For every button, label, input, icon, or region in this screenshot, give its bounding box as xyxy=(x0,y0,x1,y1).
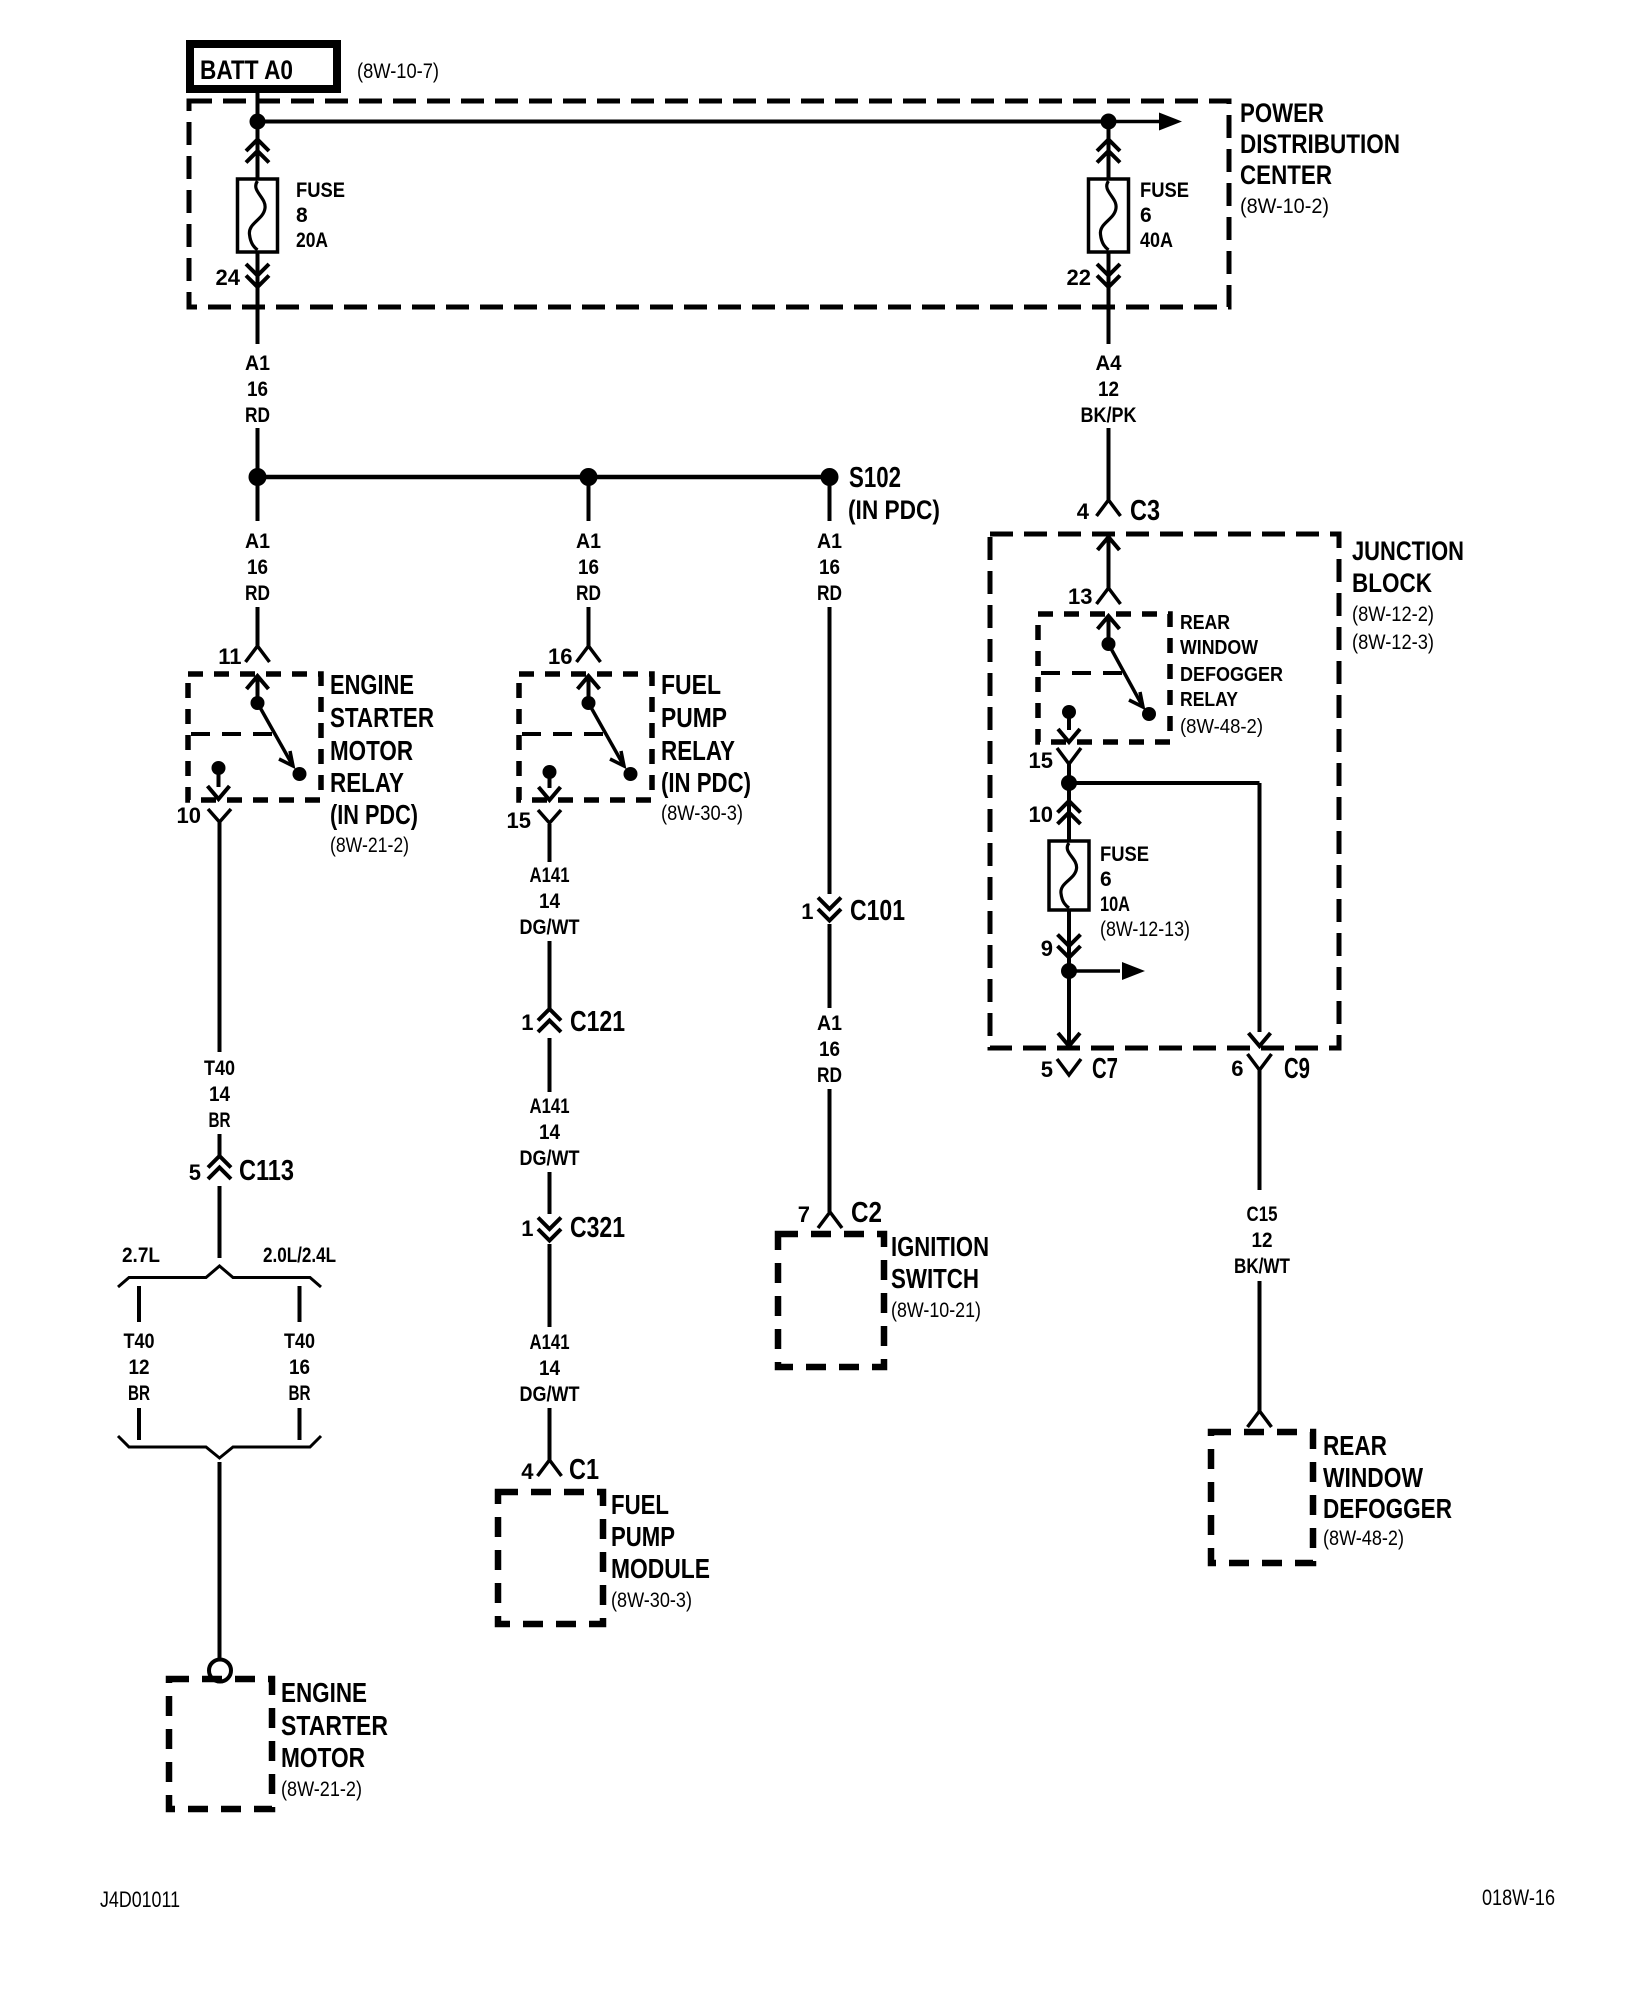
wire C121 to A141 xyxy=(548,1038,552,1092)
wire C9 to C15 xyxy=(1258,1070,1262,1190)
connector C113 xyxy=(208,1156,231,1179)
svg-text:(8W-21-2): (8W-21-2) xyxy=(281,1778,362,1801)
svg-text:16: 16 xyxy=(819,1038,840,1061)
defogger relay coil divider xyxy=(1041,671,1126,675)
wire label A1 16 RD (feed) xyxy=(245,352,270,427)
wire label A1 16 RD (branch 2) xyxy=(576,530,601,605)
pin 1 label (C321) xyxy=(521,1216,533,1241)
node S102 splice left xyxy=(249,468,267,486)
pin 15 label xyxy=(507,808,531,833)
reference (8W-10-7) xyxy=(357,60,439,83)
svg-text:(8W-12-3): (8W-12-3) xyxy=(1352,631,1434,654)
svg-text:A1: A1 xyxy=(245,352,270,375)
pin 15 label (JB) xyxy=(1029,748,1053,773)
wire splice to branch 1 xyxy=(256,484,260,521)
battery feed label box BATT A0 xyxy=(190,44,337,89)
wire label A1 16 RD (ignition) xyxy=(817,1012,842,1087)
svg-text:6: 6 xyxy=(1100,868,1112,891)
svg-text:(8W-10-2): (8W-10-2) xyxy=(1240,195,1329,218)
wire fuse to tap splice xyxy=(1067,910,1071,964)
svg-text:(8W-30-3): (8W-30-3) xyxy=(611,1589,692,1612)
fuel pump relay entry arrow xyxy=(578,676,600,703)
svg-text:14: 14 xyxy=(539,1357,560,1380)
wire label T40 14 BR xyxy=(204,1057,235,1132)
svg-text:C15: C15 xyxy=(1247,1203,1278,1226)
wire splice to C9 branch xyxy=(1069,783,1260,1032)
fuse 6 value label xyxy=(1140,179,1189,252)
connector label C1 xyxy=(569,1454,599,1486)
svg-text:(IN PDC): (IN PDC) xyxy=(330,799,418,830)
footer drawing number J4D01011 xyxy=(100,1887,180,1912)
svg-text:12: 12 xyxy=(129,1356,150,1379)
svg-text:8: 8 xyxy=(296,204,308,227)
connector pin 15 (JB) xyxy=(1057,748,1081,764)
svg-text:12: 12 xyxy=(1098,378,1119,401)
wire 2.0L branch lower xyxy=(298,1408,302,1440)
svg-text:SWITCH: SWITCH xyxy=(891,1263,979,1294)
svg-text:(8W-30-3): (8W-30-3) xyxy=(661,802,743,825)
svg-text:1: 1 xyxy=(521,1216,533,1241)
connector C7 xyxy=(1057,1059,1081,1075)
svg-text:C7: C7 xyxy=(1092,1053,1118,1085)
wire 2.0L branch upper xyxy=(298,1286,302,1322)
svg-text:C113: C113 xyxy=(239,1155,294,1187)
connector C9 xyxy=(1248,1054,1272,1070)
svg-text:14: 14 xyxy=(539,1121,560,1144)
svg-text:IGNITION: IGNITION xyxy=(891,1231,989,1262)
connector pin 13 xyxy=(1097,588,1121,604)
svg-text:FUSE: FUSE xyxy=(296,179,345,202)
wire splice to branch 3 xyxy=(828,484,832,521)
svg-text:16: 16 xyxy=(289,1356,310,1379)
rear window defogger box xyxy=(1211,1432,1313,1563)
svg-text:(8W-48-2): (8W-48-2) xyxy=(1323,1527,1404,1550)
node battery bus right xyxy=(1101,114,1117,130)
connector pin 10 (JB) xyxy=(1058,801,1081,824)
wire into splice S102 xyxy=(256,428,260,470)
wire relay to A141 xyxy=(548,824,552,862)
svg-text:24: 24 xyxy=(216,265,241,290)
svg-text:FUSE: FUSE xyxy=(1100,843,1149,866)
engine starter motor relay label xyxy=(330,669,434,857)
connector label C3 xyxy=(1130,495,1160,527)
connector C3 xyxy=(1097,500,1121,516)
wire label A1 16 RD (branch 3) xyxy=(817,530,842,605)
wire bus to fuse 6 xyxy=(1107,122,1111,180)
svg-text:STARTER: STARTER xyxy=(281,1710,388,1741)
svg-text:16: 16 xyxy=(819,556,840,579)
svg-text:PUMP: PUMP xyxy=(611,1521,675,1552)
svg-text:BK/PK: BK/PK xyxy=(1081,404,1137,427)
node S102 splice right xyxy=(821,468,839,486)
relay output contact xyxy=(208,761,230,799)
svg-text:A4: A4 xyxy=(1096,352,1122,375)
rear window defogger relay label xyxy=(1180,612,1284,738)
pin 10 label (JB) xyxy=(1029,802,1053,827)
ignition switch box xyxy=(778,1234,884,1367)
footer sheet number 018W-16 xyxy=(1482,1885,1555,1910)
pin 11 label xyxy=(218,644,241,669)
connector label C113 xyxy=(239,1155,294,1187)
wire splice bus S102 xyxy=(258,475,830,480)
fuse 6 10A label xyxy=(1100,843,1190,941)
junction block title xyxy=(1352,536,1464,654)
svg-text:ENGINE: ENGINE xyxy=(281,1677,367,1708)
connector C121 xyxy=(538,1009,561,1032)
wire pin 15 to splice xyxy=(1067,764,1071,783)
wire label T40 16 BR xyxy=(284,1330,315,1405)
starter motor terminal ring xyxy=(209,1660,231,1682)
wire A1 to ignition switch xyxy=(828,1089,832,1212)
svg-text:BR: BR xyxy=(128,1382,150,1405)
pin 4 label (C3) xyxy=(1077,499,1090,524)
power distribution center title xyxy=(1240,98,1400,218)
pin 9 label xyxy=(1041,936,1053,961)
svg-text:C101: C101 xyxy=(850,895,905,927)
relay coil divider xyxy=(191,732,277,736)
fuel pump relay switch common xyxy=(582,696,638,781)
svg-text:14: 14 xyxy=(539,890,560,913)
wire C101 to A1 xyxy=(828,924,832,1008)
engine starter motor box xyxy=(169,1679,272,1809)
junction block dashed box xyxy=(990,534,1339,1048)
svg-text:(8W-48-2): (8W-48-2) xyxy=(1180,716,1263,738)
fuel pump relay coil divider xyxy=(522,732,608,736)
wire battery bus across PDC xyxy=(258,120,1109,124)
svg-text:A1: A1 xyxy=(817,530,842,553)
svg-text:PUMP: PUMP xyxy=(661,702,727,733)
svg-text:POWER: POWER xyxy=(1240,98,1324,128)
node defogger feed splice xyxy=(1061,775,1077,791)
power distribution center dashed box xyxy=(189,101,1229,307)
node battery bus left xyxy=(250,114,266,130)
connector pin 15 xyxy=(538,810,561,823)
svg-text:BR: BR xyxy=(209,1109,231,1132)
svg-text:11: 11 xyxy=(218,644,241,669)
svg-text:DISTRIBUTION: DISTRIBUTION xyxy=(1240,129,1400,159)
pin 4 label (C1) xyxy=(521,1459,534,1484)
svg-text:10: 10 xyxy=(1029,802,1053,827)
fuel pump module label xyxy=(611,1489,710,1612)
svg-text:T40: T40 xyxy=(284,1330,315,1353)
engine option label 2.7L xyxy=(122,1244,160,1267)
svg-text:CENTER: CENTER xyxy=(1240,160,1332,190)
svg-text:16: 16 xyxy=(247,378,268,401)
pin 1 label (C101) xyxy=(801,899,813,924)
svg-text:C1: C1 xyxy=(569,1454,599,1486)
svg-text:MOTOR: MOTOR xyxy=(330,735,413,766)
wire label A141 14 DG/WT (2) xyxy=(520,1095,580,1170)
C9 exit arrow xyxy=(1249,1033,1271,1046)
svg-text:BATT A0: BATT A0 xyxy=(200,55,293,85)
engine starter motor relay box xyxy=(188,674,321,800)
svg-text:S102: S102 xyxy=(849,462,901,494)
wire T40 to C113 xyxy=(218,1134,222,1156)
svg-text:RELAY: RELAY xyxy=(661,735,735,766)
node S102 splice middle xyxy=(580,468,598,486)
pin 16 label xyxy=(548,644,572,669)
engine option label 2.0L/2.4L xyxy=(263,1244,336,1267)
wire label A141 14 DG/WT (1) xyxy=(520,864,580,939)
svg-text:DG/WT: DG/WT xyxy=(520,916,580,939)
wire label T40 12 BR xyxy=(124,1330,155,1405)
fuel pump relay output contact xyxy=(539,765,561,800)
svg-text:1: 1 xyxy=(521,1010,533,1035)
pin 7 label (C2) xyxy=(798,1202,810,1227)
svg-text:REAR: REAR xyxy=(1180,612,1230,634)
wire C15 to defogger xyxy=(1258,1281,1262,1411)
ignition switch label xyxy=(891,1231,989,1322)
connector rear window defogger xyxy=(1248,1411,1272,1427)
pin 22 label xyxy=(1067,265,1091,290)
wire tap arrow out xyxy=(1069,962,1145,980)
svg-text:9: 9 xyxy=(1041,936,1053,961)
fuse 6 10A junction block xyxy=(1049,841,1089,910)
svg-text:6: 6 xyxy=(1140,204,1152,227)
wire splice to branch 2 xyxy=(587,484,591,521)
junction block entry arrow xyxy=(1098,537,1120,588)
svg-text:DG/WT: DG/WT xyxy=(520,1383,580,1406)
rear window defogger label xyxy=(1323,1430,1452,1550)
svg-text:DEFOGGER: DEFOGGER xyxy=(1180,664,1284,686)
wire BATT A0 to fuse 8 xyxy=(256,89,260,179)
svg-text:018W-16: 018W-16 xyxy=(1482,1885,1555,1910)
wire merge to starter motor xyxy=(218,1462,222,1660)
connector C2 xyxy=(818,1212,842,1228)
svg-text:5: 5 xyxy=(1041,1057,1053,1082)
svg-text:BR: BR xyxy=(289,1382,311,1405)
connector label C121 xyxy=(570,1006,625,1038)
wire A141 to fuel pump module xyxy=(548,1408,552,1460)
svg-text:ENGINE: ENGINE xyxy=(330,669,414,700)
svg-text:RD: RD xyxy=(817,582,842,605)
svg-text:10: 10 xyxy=(177,803,201,828)
wire branch 1 to relay xyxy=(256,607,260,646)
connector label C9 xyxy=(1284,1053,1310,1085)
svg-text:2.7L: 2.7L xyxy=(122,1244,160,1267)
svg-text:DG/WT: DG/WT xyxy=(520,1147,580,1170)
connector pin 10 xyxy=(208,809,231,822)
rear window defogger relay box xyxy=(1038,614,1170,742)
svg-text:J4D01011: J4D01011 xyxy=(100,1887,180,1912)
svg-text:C121: C121 xyxy=(570,1006,625,1038)
svg-text:13: 13 xyxy=(1068,584,1092,609)
connector pin 9 xyxy=(1058,935,1081,958)
svg-text:16: 16 xyxy=(247,556,268,579)
svg-text:FUEL: FUEL xyxy=(611,1489,669,1520)
connector label C2 xyxy=(851,1197,882,1229)
svg-text:A1: A1 xyxy=(817,1012,842,1035)
connector pair below fuse 8 xyxy=(246,264,269,287)
connector C1 xyxy=(538,1460,562,1476)
svg-text:14: 14 xyxy=(209,1083,230,1106)
svg-text:1: 1 xyxy=(801,899,813,924)
svg-text:16: 16 xyxy=(578,556,599,579)
fuse 6 40A xyxy=(1089,179,1129,252)
connector label C321 xyxy=(570,1212,625,1244)
svg-text:RD: RD xyxy=(245,404,270,427)
brace engine merge bottom xyxy=(118,1436,321,1458)
svg-text:FUEL: FUEL xyxy=(661,669,721,700)
connector pair above fuse 6 xyxy=(1097,140,1120,163)
svg-text:(8W-10-7): (8W-10-7) xyxy=(357,60,439,83)
pin 24 label xyxy=(216,265,241,290)
connector pin 16 xyxy=(577,646,601,662)
wire fuse 6 to PDC exit xyxy=(1107,252,1111,344)
pin 6 label (C9) xyxy=(1231,1056,1243,1081)
wire label A1 16 RD (branch 1) xyxy=(245,530,270,605)
connector label C7 xyxy=(1092,1053,1118,1085)
wire branch 2 to relay xyxy=(587,607,591,646)
connector pair below fuse 6 xyxy=(1097,264,1120,287)
defogger relay switch common xyxy=(1102,637,1157,721)
wire A141 to C121 xyxy=(548,941,552,1008)
fuse 8 20A xyxy=(238,179,278,252)
defogger relay output contact xyxy=(1058,705,1080,742)
svg-text:RD: RD xyxy=(576,582,601,605)
svg-text:BLOCK: BLOCK xyxy=(1352,568,1432,598)
svg-text:A1: A1 xyxy=(576,530,601,553)
svg-text:15: 15 xyxy=(507,808,531,833)
svg-text:DEFOGGER: DEFOGGER xyxy=(1323,1493,1452,1524)
svg-text:10A: 10A xyxy=(1100,893,1130,916)
svg-text:MODULE: MODULE xyxy=(611,1553,710,1584)
svg-text:15: 15 xyxy=(1029,748,1053,773)
defogger relay entry arrow xyxy=(1098,616,1120,644)
svg-text:JUNCTION: JUNCTION xyxy=(1352,536,1464,566)
svg-text:7: 7 xyxy=(798,1202,810,1227)
pin 5 label (C7) xyxy=(1041,1057,1053,1082)
brace engine split top xyxy=(118,1266,321,1287)
svg-text:16: 16 xyxy=(548,644,572,669)
connector pair above fuse 8 xyxy=(246,140,269,163)
splice label S102 xyxy=(848,462,940,525)
svg-text:2.0L/2.4L: 2.0L/2.4L xyxy=(263,1244,336,1267)
wire label A4 12 BK/PK xyxy=(1081,352,1137,427)
svg-text:A141: A141 xyxy=(530,1095,570,1118)
relay switch common xyxy=(251,696,307,781)
svg-text:5: 5 xyxy=(189,1160,201,1185)
svg-text:REAR: REAR xyxy=(1323,1430,1387,1461)
svg-text:C3: C3 xyxy=(1130,495,1160,527)
svg-text:A141: A141 xyxy=(530,864,570,887)
svg-text:RELAY: RELAY xyxy=(330,767,404,798)
svg-text:T40: T40 xyxy=(204,1057,235,1080)
svg-text:A141: A141 xyxy=(530,1331,570,1354)
svg-text:WINDOW: WINDOW xyxy=(1180,637,1258,659)
svg-text:(8W-10-21): (8W-10-21) xyxy=(891,1299,981,1322)
wire PDC to C3 xyxy=(1107,428,1111,500)
fuel pump relay label xyxy=(661,669,751,825)
wire fuse 8 to PDC exit xyxy=(256,252,260,344)
fuse 8 value label xyxy=(296,179,345,252)
svg-text:6: 6 xyxy=(1231,1056,1243,1081)
connector C321 xyxy=(538,1218,561,1241)
svg-text:4: 4 xyxy=(1077,499,1090,524)
fuel pump relay box xyxy=(519,674,652,800)
svg-text:40A: 40A xyxy=(1140,229,1173,252)
svg-text:22: 22 xyxy=(1067,265,1091,290)
svg-text:4: 4 xyxy=(521,1459,534,1484)
wire C113 to engine split xyxy=(218,1186,222,1258)
svg-text:C9: C9 xyxy=(1284,1053,1310,1085)
connector pin 11 xyxy=(246,646,270,662)
svg-text:(8W-12-2): (8W-12-2) xyxy=(1352,603,1434,626)
svg-text:(IN PDC): (IN PDC) xyxy=(848,495,940,525)
wire relay to T40 xyxy=(218,822,222,1052)
pin 1 label (C121) xyxy=(521,1010,533,1035)
wire 2.7L branch lower xyxy=(137,1408,141,1440)
node fused output tap xyxy=(1061,963,1077,979)
svg-text:RD: RD xyxy=(245,582,270,605)
wire C321 to A141 xyxy=(548,1244,552,1327)
svg-text:C2: C2 xyxy=(851,1197,882,1229)
wire label C15 12 BK/WT xyxy=(1234,1203,1290,1278)
svg-text:A1: A1 xyxy=(245,530,270,553)
svg-text:MOTOR: MOTOR xyxy=(281,1742,365,1773)
fuel pump module box xyxy=(498,1492,603,1624)
svg-text:C321: C321 xyxy=(570,1212,625,1244)
engine starter motor label xyxy=(281,1677,388,1801)
wire A141 to C321 xyxy=(548,1172,552,1214)
svg-text:FUSE: FUSE xyxy=(1140,179,1189,202)
relay pin 11 entry arrow xyxy=(247,676,269,703)
svg-text:RELAY: RELAY xyxy=(1180,689,1239,711)
connector label C101 xyxy=(850,895,905,927)
wire splice to fuse 6 JB xyxy=(1067,783,1071,841)
wire label A141 14 DG/WT (3) xyxy=(520,1331,580,1406)
svg-text:RD: RD xyxy=(817,1064,842,1087)
svg-text:12: 12 xyxy=(1252,1229,1273,1252)
wire tap to C7 xyxy=(1058,971,1080,1046)
svg-text:BK/WT: BK/WT xyxy=(1234,1255,1290,1278)
connector C101 xyxy=(818,898,841,921)
wire battery bus arrow out xyxy=(1109,113,1183,131)
svg-text:(IN PDC): (IN PDC) xyxy=(661,767,751,798)
svg-text:STARTER: STARTER xyxy=(330,702,434,733)
svg-text:(8W-21-2): (8W-21-2) xyxy=(330,834,409,857)
wire branch 3 to C101 xyxy=(828,607,832,894)
pin 10 label xyxy=(177,803,201,828)
pin 13 label xyxy=(1068,584,1092,609)
svg-text:20A: 20A xyxy=(296,229,328,252)
svg-text:(8W-12-13): (8W-12-13) xyxy=(1100,918,1190,941)
svg-text:WINDOW: WINDOW xyxy=(1323,1462,1423,1493)
pin 5 label xyxy=(189,1160,201,1185)
wire 2.7L branch upper xyxy=(137,1286,141,1322)
svg-text:T40: T40 xyxy=(124,1330,155,1353)
